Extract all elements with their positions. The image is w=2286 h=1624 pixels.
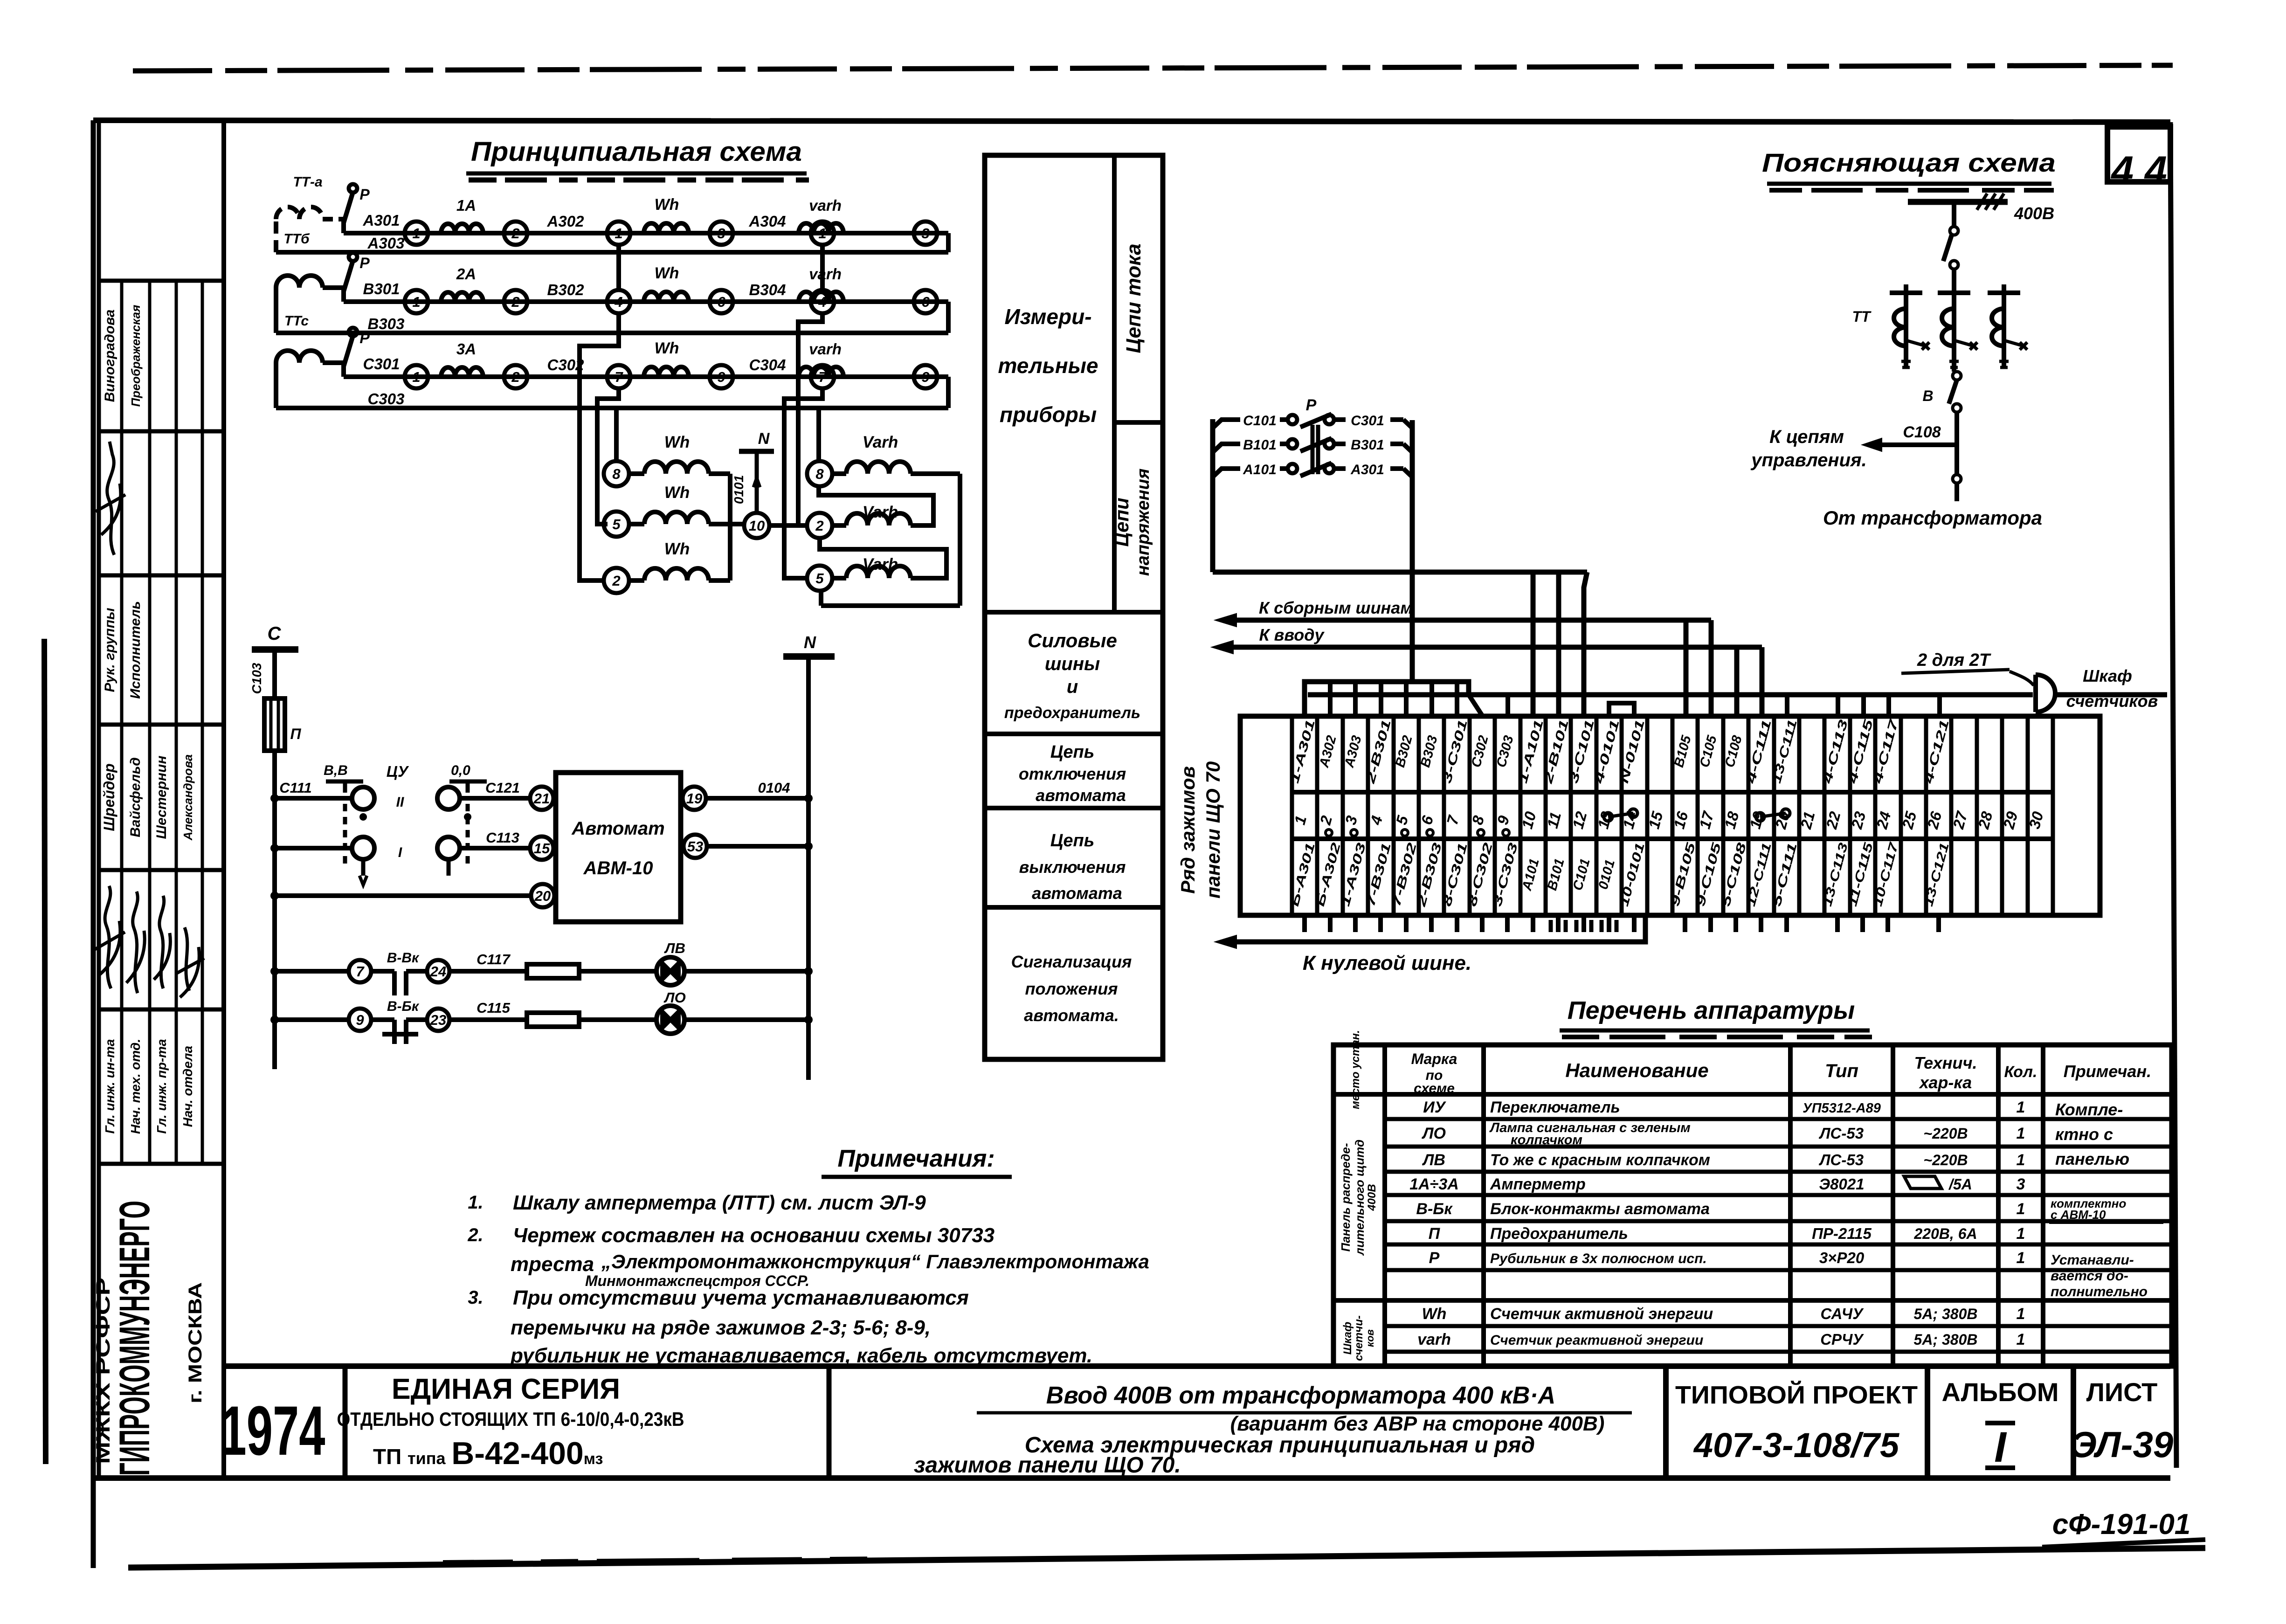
svg-text:24: 24 <box>430 963 446 980</box>
svg-text:приборы: приборы <box>1000 402 1097 427</box>
svg-text:Шрейдер: Шрейдер <box>101 763 117 831</box>
svg-text:То же с красным колпачком: То же с красным колпачком <box>1490 1151 1710 1169</box>
lamp LV row: terminal 7, contact V-Vk, terminal 24, wire C117, resistor, lamp LV <box>275 969 349 974</box>
svg-text:Примечан.: Примечан. <box>2064 1062 2151 1081</box>
svg-text:АЛЬБОМ: АЛЬБОМ <box>1941 1377 2058 1407</box>
svg-text:3: 3 <box>921 225 929 242</box>
rubilnik R bracket <box>1210 419 1216 572</box>
Wh group right bus <box>728 474 732 580</box>
svg-text:Блок-контакты автомата: Блок-контакты автомата <box>1490 1200 1710 1218</box>
return wire С303 <box>946 377 951 408</box>
return wire В303 <box>946 302 951 333</box>
svg-text:К сборным шинам: К сборным шинам <box>1259 598 1413 617</box>
svg-text:Переключатель: Переключатель <box>1490 1099 1620 1116</box>
svg-text:г. МОСКВА: г. МОСКВА <box>185 1282 206 1403</box>
svg-text:ЛО: ЛО <box>663 989 685 1006</box>
svg-text:В-Вк: В-Вк <box>387 950 420 966</box>
varh group wrap wiring <box>911 471 960 476</box>
wire B row jog down to varh group <box>798 313 822 525</box>
svg-text:ЛВ: ЛВ <box>1422 1151 1445 1169</box>
svg-text:Цепь: Цепь <box>1050 831 1095 850</box>
stubs below terminals <box>1302 915 1307 932</box>
svg-text:Ряд зажимов: Ряд зажимов <box>1177 766 1199 894</box>
svg-text:ЦУ: ЦУ <box>387 763 409 780</box>
svg-text:хар-ка: хар-ка <box>1919 1073 1972 1092</box>
wire to null bus <box>1236 918 1645 942</box>
svg-text:При отсутствии учета устана: При отсутствии учета устанавливаются <box>513 1286 969 1309</box>
jumper terminals 19-20 <box>1756 813 1764 821</box>
current transformer TT phase В <box>276 276 323 333</box>
svg-text:Предохранитель: Предохранитель <box>1490 1225 1628 1243</box>
svg-text:7: 7 <box>818 369 827 385</box>
svg-text:7: 7 <box>356 963 365 980</box>
svg-text:5: 5 <box>815 570 824 587</box>
wattmeter current coil Wh phase В <box>644 292 689 302</box>
year box 1974 <box>343 1366 348 1478</box>
svg-text:N: N <box>804 633 816 652</box>
svg-text:ЛВ: ЛВ <box>664 940 685 956</box>
svg-text:5: 5 <box>612 516 621 532</box>
svg-text:К нулевой шине.: К нулевой шине. <box>1303 952 1471 974</box>
fuse P <box>264 698 285 751</box>
svg-text:ков: ков <box>1364 1329 1376 1347</box>
wire from A row to B row voltage chain <box>616 245 621 290</box>
typical project cell <box>1663 1366 1669 1478</box>
varmeter current coil varh phase А <box>799 223 843 233</box>
svg-text:19: 19 <box>686 790 703 807</box>
svg-text:10: 10 <box>749 518 765 534</box>
node 0101 riser with N tap <box>755 451 759 513</box>
current transformer TT phase А <box>276 207 323 252</box>
svg-text:5А; 380В: 5А; 380В <box>1914 1306 1978 1322</box>
wire В301 main row <box>344 299 948 304</box>
varh voltage coil row 8 <box>807 461 832 486</box>
equipment table frame <box>1333 1045 2172 1366</box>
svg-text:зажимов панели ЩО 70.: зажимов панели ЩО 70. <box>914 1453 1181 1478</box>
svg-text:1: 1 <box>2017 1151 2025 1169</box>
paper edge artifact line <box>44 639 46 1464</box>
wire С301 main row <box>344 374 948 379</box>
svg-text:В-Бк: В-Бк <box>1416 1200 1453 1218</box>
svg-text:6: 6 <box>717 294 725 310</box>
svg-text:выключения: выключения <box>1019 857 1126 877</box>
svg-text:ОТДЕЛЬНО СТОЯЩИХ ТП 6-10/0,4-: ОТДЕЛЬНО СТОЯЩИХ ТП 6-10/0,4-0,23кВ <box>337 1408 684 1430</box>
feeder switch upper <box>1952 202 1956 227</box>
svg-text:сФ-191-01: сФ-191-01 <box>2052 1508 2191 1541</box>
varmeter current coil varh phase В <box>799 292 843 302</box>
svg-text:Wh: Wh <box>664 484 690 502</box>
terminal 53 and wire to N <box>684 835 707 858</box>
svg-text:Varh: Varh <box>863 433 898 451</box>
svg-text:4: 4 <box>818 294 826 310</box>
wire Wh group to terminal 10 <box>730 522 744 526</box>
album cell <box>1925 1366 1930 1478</box>
svg-text:Устанавли-: Устанавли- <box>2051 1252 2134 1268</box>
svg-text:С103: С103 <box>249 663 264 694</box>
sheet torn bottom edge <box>128 1548 2205 1568</box>
wire terminal 10 to varh chain <box>769 523 798 528</box>
terminal row table frame <box>1240 716 2100 915</box>
svg-text:Панель распреде-: Панель распреде- <box>1339 1143 1353 1251</box>
svg-text:Wh: Wh <box>655 264 679 282</box>
svg-text:ЛС-53: ЛС-53 <box>1819 1125 1864 1142</box>
wires from rubilnik to terminals 10-12 <box>1531 572 1536 716</box>
svg-text:Гл. инж. пр-та: Гл. инж. пр-та <box>154 1039 169 1133</box>
svg-text:3: 3 <box>717 225 725 242</box>
svg-text:автомата: автомата <box>1032 884 1122 903</box>
rubilnik shaft <box>1311 425 1315 474</box>
svg-text:Р: Р <box>1429 1249 1440 1267</box>
svg-text:вается до-: вается до- <box>2051 1268 2128 1284</box>
svg-text:0,0: 0,0 <box>451 763 470 778</box>
ammeter coil 1А <box>441 224 483 233</box>
svg-text:колпачком: колпачком <box>1511 1133 1582 1147</box>
svg-text:0104: 0104 <box>758 780 790 796</box>
svg-text:ТТс: ТТс <box>284 313 309 329</box>
svg-text:1: 1 <box>2017 1305 2025 1323</box>
function column frame <box>985 155 1163 1059</box>
svg-text:0101: 0101 <box>732 475 746 504</box>
wire C103 bus riser <box>272 650 277 1069</box>
svg-text:полнительно: полнительно <box>2051 1284 2148 1299</box>
svg-text:ЛО: ЛО <box>1421 1125 1446 1142</box>
svg-text:1: 1 <box>2017 1200 2025 1218</box>
svg-text:шины: шины <box>1045 654 1100 674</box>
svg-text:положения: положения <box>1025 979 1118 998</box>
svg-text:С303: С303 <box>368 390 405 408</box>
svg-text:Автомат: Автомат <box>571 818 664 839</box>
svg-text:ЕДИНАЯ СЕРИЯ: ЕДИНАЯ СЕРИЯ <box>392 1373 620 1405</box>
svg-text:4: 4 <box>614 294 622 310</box>
TT column 1 <box>1904 284 1908 367</box>
series cell <box>827 1366 832 1478</box>
svg-text:В301: В301 <box>363 280 400 297</box>
svg-text:В302: В302 <box>547 281 585 298</box>
svg-text:С301: С301 <box>363 355 400 373</box>
svg-text:ЛС-53: ЛС-53 <box>1819 1151 1864 1168</box>
svg-text:С121: С121 <box>485 780 520 796</box>
svg-text:53: 53 <box>687 838 703 855</box>
svg-text:Р: Р <box>1306 396 1317 414</box>
svg-text:С115: С115 <box>477 1000 511 1016</box>
svg-text:От трансформатора: От трансформатора <box>1823 507 2042 529</box>
line to meter cabinet <box>1308 692 2033 698</box>
ammeter coil 3А <box>441 367 483 377</box>
svg-text:400В: 400В <box>2014 204 2054 223</box>
stubs from cabinet line into terminals 20,22,23,24,26 <box>1785 695 1789 716</box>
svg-text:Шкаф: Шкаф <box>1341 1322 1354 1355</box>
wire C113 to terminal 15 <box>460 846 530 850</box>
switch OO upper contact <box>437 787 460 809</box>
list cell <box>2071 1366 2076 1478</box>
svg-text:В-Бк: В-Бк <box>387 999 420 1014</box>
breaker V <box>1952 367 1956 372</box>
svg-text:Рубильник в 3x полюсном исп.: Рубильник в 3x полюсном исп. <box>1490 1251 1707 1266</box>
ammeter coil 2А <box>441 292 483 302</box>
rubilnik pole С101-С301 <box>1213 420 1240 428</box>
svg-text:2: 2 <box>511 369 519 385</box>
rubilnik pole В101-В301 <box>1213 444 1240 452</box>
wire to terminal 20 <box>275 893 531 898</box>
svg-text:varh: varh <box>809 340 842 358</box>
svg-text:1: 1 <box>818 225 826 242</box>
svg-text:перемычки на ряде зажимов: перемычки на ряде зажимов 2-3; 5-6; 8-9, <box>511 1316 931 1339</box>
svg-text:А302: А302 <box>547 213 585 230</box>
svg-text:Сигнализация: Сигнализация <box>1011 952 1132 971</box>
svg-text:В101: В101 <box>1243 437 1277 453</box>
wire C row down jog to Wh group <box>597 388 619 524</box>
svg-text:ГИПРОКОММУНЭНЕРГО: ГИПРОКОММУНЭНЕРГО <box>111 1201 159 1476</box>
svg-text:В301: В301 <box>1351 437 1384 453</box>
svg-text:Wh: Wh <box>655 196 679 214</box>
svg-text:Тип: Тип <box>1825 1061 1858 1081</box>
svg-text:3: 3 <box>2017 1175 2025 1193</box>
svg-text:САЧУ: САЧУ <box>1821 1305 1865 1322</box>
wattmeter current coil Wh phase А <box>644 223 689 233</box>
svg-text:Компле-: Компле- <box>2055 1100 2123 1119</box>
svg-text:Примечания:: Примечания: <box>837 1145 995 1172</box>
svg-text:3А: 3А <box>456 340 476 358</box>
TT column 2 <box>1952 284 1956 367</box>
svg-text:Шкалу амперметра (ЛТТ) см. л: Шкалу амперметра (ЛТТ) см. лист ЭЛ-9 <box>513 1191 926 1214</box>
svg-text:В,В: В,В <box>324 763 348 778</box>
svg-text:схеме: схеме <box>1414 1081 1455 1096</box>
svg-text:панелью: панелью <box>2055 1149 2129 1168</box>
svg-text:тельные: тельные <box>998 353 1098 378</box>
jumper bracket above terminals 13-14 <box>1609 703 1634 716</box>
wire C row jog down to varh group <box>784 388 822 578</box>
svg-text:Р: Р <box>359 330 370 346</box>
svg-text:Поясняющая схема: Поясняющая схема <box>1762 148 2056 177</box>
branch C108 to control circuits <box>1882 442 1957 447</box>
svg-text:Вайсфельд: Вайсфельд <box>128 757 143 837</box>
current transformer TT phase С <box>276 351 323 408</box>
svg-text:400В: 400В <box>1366 1184 1378 1211</box>
svg-text:1: 1 <box>2017 1249 2025 1267</box>
wire C121 to terminal 21 <box>460 796 530 801</box>
svg-text:МЖКХ РСФСР: МЖКХ РСФСР <box>92 1278 114 1464</box>
svg-text:С301: С301 <box>1351 413 1384 428</box>
switch P phase А <box>341 219 346 233</box>
svg-text:1: 1 <box>412 225 420 242</box>
svg-text:6: 6 <box>921 294 930 310</box>
svg-text:1: 1 <box>412 369 420 385</box>
svg-text:23: 23 <box>430 1012 446 1028</box>
svg-text:С117: С117 <box>477 951 511 967</box>
wire C return to Wh-8 coil <box>614 408 619 461</box>
svg-text:2 для 2Т: 2 для 2Т <box>1917 650 1991 670</box>
sheet number box 44 <box>2107 127 2170 182</box>
svg-text:напряжения: напряжения <box>1133 469 1153 576</box>
svg-text:2А: 2А <box>456 265 476 283</box>
svg-text:1: 1 <box>412 294 420 310</box>
lower disconnect <box>1953 475 1961 483</box>
terminal columns <box>1290 716 1294 915</box>
svg-text:I: I <box>1994 1424 2007 1471</box>
svg-text:Чертеж составлен на основан: Чертеж составлен на основании схемы 3073… <box>513 1224 995 1247</box>
line K sbornym shinam <box>1236 618 1711 623</box>
return wire А303 <box>946 233 951 252</box>
svg-text:В: В <box>1922 387 1933 404</box>
svg-text:407-3-108/75: 407-3-108/75 <box>1693 1426 1900 1465</box>
svg-text:ИУ: ИУ <box>1423 1099 1446 1116</box>
svg-text:~220В: ~220В <box>1923 1125 1968 1142</box>
svg-text:7: 7 <box>615 369 623 385</box>
svg-text:С304: С304 <box>749 356 786 373</box>
svg-text:Счетчик активной энергии: Счетчик активной энергии <box>1490 1305 1713 1323</box>
svg-text:ЭЛ-39: ЭЛ-39 <box>2071 1424 2174 1465</box>
svg-text:Амперметр: Амперметр <box>1490 1175 1586 1193</box>
svg-text:автомата: автомата <box>1036 786 1126 805</box>
svg-text:1974: 1974 <box>221 1391 325 1470</box>
svg-text:20: 20 <box>534 888 551 904</box>
svg-text:предохранитель: предохранитель <box>1004 704 1140 722</box>
Wh voltage coil row 8 <box>604 461 629 486</box>
svg-text:Перечень аппаратуры: Перечень аппаратуры <box>1568 996 1855 1024</box>
svg-text:2.: 2. <box>467 1225 483 1245</box>
svg-text:1: 1 <box>2017 1331 2025 1348</box>
svg-text:Ввод 400В от трансформатора: Ввод 400В от трансформатора 400 кВ·А <box>1046 1382 1555 1409</box>
switch OO lower contact <box>437 837 460 859</box>
wire C111 row <box>275 796 352 801</box>
svg-text:Технич.: Технич. <box>1914 1053 1977 1072</box>
svg-text:С111: С111 <box>279 780 312 796</box>
svg-text:2: 2 <box>511 294 519 310</box>
svg-text:С: С <box>268 623 282 644</box>
left signature strip grid <box>221 120 226 1478</box>
svg-text:2: 2 <box>815 518 823 534</box>
svg-text:К цепям: К цепям <box>1769 427 1844 447</box>
svg-text:9: 9 <box>921 369 930 385</box>
svg-text:Р: Р <box>359 186 370 203</box>
svg-text:Наименование: Наименование <box>1565 1059 1708 1081</box>
svg-text:Э8021: Э8021 <box>1819 1175 1864 1193</box>
svg-text:место устан.: место устан. <box>1349 1030 1362 1109</box>
svg-text:Wh: Wh <box>1422 1305 1447 1323</box>
N bus riser <box>806 657 811 1080</box>
line K vvodu <box>1233 645 1762 650</box>
svg-text:А303: А303 <box>367 235 405 252</box>
svg-text:Исполнитель: Исполнитель <box>128 601 143 699</box>
rubilnik pole А101-А301 <box>1213 469 1240 477</box>
svg-text:1: 1 <box>2017 1125 2025 1142</box>
svg-text:Р: Р <box>359 255 370 271</box>
lamp LO row: terminal 9, contact V-Bk, terminal 23, wire C115, resistor, lamp LO <box>275 1017 349 1022</box>
svg-text:Цепи тока: Цепи тока <box>1122 243 1145 353</box>
svg-text:Цепь: Цепь <box>1050 742 1095 762</box>
svg-text:3×Р20: 3×Р20 <box>1819 1249 1865 1266</box>
svg-text:А301: А301 <box>363 212 400 229</box>
svg-text:Марка: Марка <box>1411 1050 1457 1067</box>
border frame <box>93 120 2170 122</box>
jumper terminals 13-14 <box>1604 813 1612 821</box>
400V busbar <box>1908 199 2008 205</box>
svg-text:Нач. отдела: Нач. отдела <box>180 1046 195 1127</box>
svg-text:П: П <box>290 726 301 742</box>
svg-text:Wh: Wh <box>664 540 690 558</box>
svg-text:СРЧУ: СРЧУ <box>1820 1331 1864 1348</box>
comb feeding terminals 1-7 <box>1305 682 1469 716</box>
svg-text:1.: 1. <box>468 1192 483 1213</box>
svg-text:9: 9 <box>356 1012 364 1028</box>
svg-text:Нач. тех. отд.: Нач. тех. отд. <box>128 1039 143 1134</box>
svg-text:Преображенская: Преображенская <box>129 305 143 407</box>
svg-text:Кол.: Кол. <box>2004 1063 2037 1081</box>
svg-text:„Электромонтажконструкция“ Гла: „Электромонтажконструкция“ Главэлектромо… <box>601 1251 1149 1272</box>
hooks below terminals 11-13 <box>1551 920 1566 932</box>
TT column 3 <box>2002 284 2006 367</box>
svg-text:Шкаф: Шкаф <box>2083 666 2132 685</box>
svg-text:1А: 1А <box>456 197 476 214</box>
svg-text:5А; 380В: 5А; 380В <box>1914 1331 1978 1348</box>
svg-text:Измери-: Измери- <box>1004 304 1091 329</box>
svg-text:Гл. инж. ин-та: Гл. инж. ин-та <box>103 1039 117 1133</box>
svg-text:панели ЩО 70: панели ЩО 70 <box>1202 761 1224 898</box>
svg-text:счетчи-: счетчи- <box>1353 1315 1365 1361</box>
svg-text:треста: треста <box>511 1253 594 1276</box>
switch P phase С <box>341 363 346 377</box>
svg-text:varh: varh <box>809 265 842 283</box>
svg-text:А101: А101 <box>1243 462 1277 477</box>
title block top <box>224 1363 2170 1369</box>
svg-text:ТТ-а: ТТ-а <box>293 174 322 190</box>
svg-text:~220В: ~220В <box>1923 1152 1968 1168</box>
meter cabinet symbol <box>2036 675 2055 712</box>
svg-text:Александрова: Александрова <box>181 754 195 841</box>
svg-text:Счетчик реактивной энергии: Счетчик реактивной энергии <box>1490 1333 1703 1348</box>
wire from A row right to B row varh chain <box>820 245 825 290</box>
svg-text:1: 1 <box>2017 1099 2025 1116</box>
svg-text:счетчиков: счетчиков <box>2066 691 2158 711</box>
svg-text:varh: varh <box>1417 1331 1451 1348</box>
svg-text:II: II <box>396 795 404 810</box>
svg-text:АВМ-10: АВМ-10 <box>583 858 653 878</box>
strip signature band2 <box>96 442 125 555</box>
wire А301 main row <box>344 231 948 235</box>
svg-text:Принципиальная схема: Принципиальная схема <box>471 137 802 167</box>
terminal circles row В <box>405 290 428 313</box>
svg-text:рубильник не устанавливается: рубильник не устанавливается, кабель отс… <box>510 1344 1092 1367</box>
svg-text:Силовые: Силовые <box>1028 629 1117 651</box>
switch IU upper contact <box>352 787 374 809</box>
terminal circles row А <box>405 221 428 245</box>
svg-text:П: П <box>1429 1225 1441 1243</box>
svg-text:ТИПОВОЙ ПРОЕКТ: ТИПОВОЙ ПРОЕКТ <box>1675 1381 1918 1409</box>
wire B row down jog to Wh group <box>580 313 619 580</box>
svg-text:3.: 3. <box>468 1287 483 1308</box>
Wh voltage coil row 2 <box>604 568 629 593</box>
svg-text:Шестернин: Шестернин <box>154 756 169 839</box>
svg-text:с АВМ-10: с АВМ-10 <box>2051 1208 2106 1222</box>
wattmeter current coil Wh phase С <box>644 367 689 377</box>
strip signatures band5 <box>94 886 125 988</box>
svg-text:4 4: 4 4 <box>2110 148 2167 193</box>
svg-text:Цепи: Цепи <box>1111 498 1133 546</box>
svg-text:Виноградова: Виноградова <box>102 310 117 402</box>
svg-text:2: 2 <box>511 225 519 242</box>
svg-text:Varh: Varh <box>863 503 898 521</box>
svg-text:автомата.: автомата. <box>1024 1006 1119 1025</box>
varh voltage coil row 5 <box>807 566 832 591</box>
svg-text:А301: А301 <box>1350 462 1384 477</box>
svg-text:N: N <box>758 430 770 448</box>
stub into terminal 9 <box>1506 695 1510 716</box>
svg-text:В304: В304 <box>749 281 786 298</box>
svg-text:ПР-2115: ПР-2115 <box>1812 1225 1872 1242</box>
svg-text:21: 21 <box>533 790 550 807</box>
svg-text:8: 8 <box>612 466 621 482</box>
svg-text:К вводу: К вводу <box>1259 625 1325 644</box>
